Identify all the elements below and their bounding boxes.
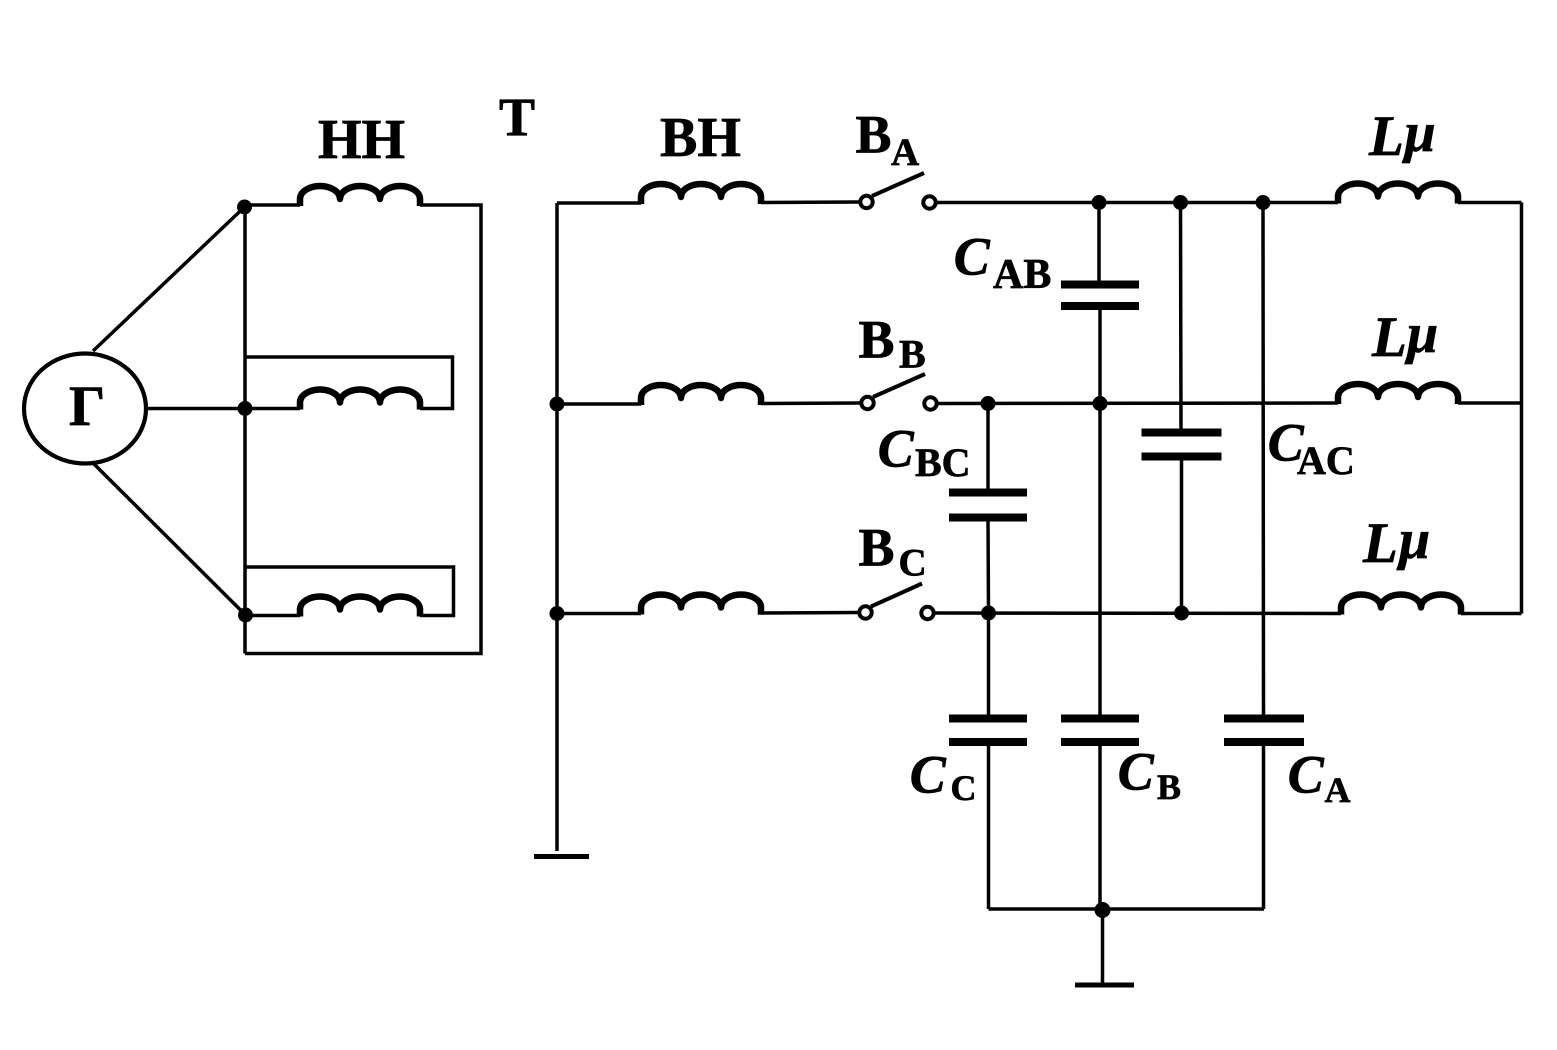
wire CAC to row C [1180,458,1184,613]
wire row A to switch BA [761,200,860,204]
wire LV vertical bus [243,206,247,654]
wire CC lower stub [987,744,991,909]
wire row B to switch BB [761,401,861,405]
label BB [859,310,926,377]
label CAB [954,227,1052,299]
wire node A2 to winding 2 [245,407,300,411]
wire CAB upper stub [1097,203,1101,283]
svg-text:μ: μ [1402,102,1436,164]
wire CAB to row B [1098,308,1102,404]
svg-text:μ: μ [1396,509,1430,571]
svg-text:L: L [1368,105,1404,168]
svg-text:C: C [878,419,915,479]
wire CC column [987,613,991,716]
wire CBC upper stub [986,404,990,491]
label CC [910,745,977,809]
label BC [859,518,927,585]
node row C - CAC [1174,606,1189,621]
label CAC [1268,413,1355,484]
switch BB [861,374,936,410]
inductor Lmu phase C [1341,595,1461,615]
label Lmu B [1371,303,1438,369]
wire Lmu B to right bus [1458,401,1522,405]
label CB [1118,742,1181,808]
svg-text:HH: HH [318,109,405,171]
wire Lmu C to right bus [1461,612,1522,616]
svg-text:C: C [1288,745,1325,805]
label CBC [878,419,971,486]
inductor BH phase C [641,595,761,615]
node A2 [238,401,253,416]
wire CB column [1098,404,1102,717]
node row B - CBC [981,396,996,411]
wire Lmu A to right bus [1458,201,1522,205]
svg-text:BC: BC [915,440,971,485]
wire right bus [1520,203,1524,614]
wire row C left [557,612,641,616]
capacitor CAC [1142,433,1222,457]
svg-text:AC: AC [1297,438,1355,483]
svg-text:Г: Г [69,375,105,438]
wire HV left bus [555,203,559,851]
svg-text:B: B [859,310,895,370]
node row B - CAB [1093,396,1108,411]
wire generator to node A3 [94,464,246,615]
inductor BH phase B [641,385,761,405]
wire winding 1 to HV loop [245,205,481,654]
wire CA column [1261,203,1265,717]
label BA [856,105,920,175]
inductor BH phase A [641,184,761,204]
switch BA [860,173,935,209]
svg-text:A: A [891,131,919,174]
svg-text:B: B [1157,767,1181,807]
capacitor CB [1061,719,1139,743]
capacitor CAB [1061,285,1139,307]
wire CBC to row C [986,519,990,613]
node bus row C [550,606,565,621]
node A3 [238,608,253,623]
svg-text:C: C [1118,742,1155,802]
node A1 [237,200,252,215]
svg-text:B: B [899,332,926,377]
svg-text:A: A [1325,770,1351,810]
wire ground stem [1101,910,1105,984]
svg-text:AB: AB [993,252,1051,298]
wire row C right [934,611,1341,615]
wire CB lower stub [1098,744,1102,909]
wire CA lower stub [1262,744,1266,909]
inductor HH winding 2 [300,390,420,410]
svg-text:B: B [856,105,892,165]
node bus row B [550,397,565,412]
node bottom bus [1095,902,1111,918]
svg-text:C: C [951,768,977,808]
capacitor CBC [949,493,1027,518]
svg-text:C: C [954,227,991,287]
wire winding 2 return [245,357,453,409]
node row C - CBC [981,606,996,621]
node row A - CAC [1173,195,1188,210]
inductor Lmu phase B [1338,384,1458,404]
inductor HH winding 1 [300,186,420,206]
wire row A left [557,201,641,205]
wire winding 3 return [245,567,454,616]
inductor Lmu phase A [1338,184,1458,204]
wire row B left [557,402,641,406]
label Lmu C [1362,509,1430,575]
label CA [1288,745,1351,811]
svg-text:T: T [499,87,535,147]
svg-text:μ: μ [1404,303,1438,365]
label Lmu A [1368,102,1436,168]
wire generator to node A2 [146,407,245,411]
inductor HH winding 3 [300,597,420,617]
svg-text:B: B [859,518,895,578]
svg-text:L: L [1371,306,1407,369]
capacitor CA [1224,719,1304,743]
svg-text:BH: BH [660,107,741,169]
svg-text:L: L [1362,512,1398,575]
wire node A1 to winding 1 [245,203,300,207]
ground bottom [1075,983,1134,988]
generator G [24,354,146,464]
capacitor CC [949,719,1027,743]
wire bottom bus [989,907,1265,911]
svg-text:C: C [910,745,947,805]
switch BC [859,584,933,620]
wire row C to switch BC [758,611,859,615]
wire generator to node A1 [93,207,245,351]
wire node A3 to winding 3 [246,614,300,618]
node row A - CAB [1092,195,1107,210]
wire CAC upper stub [1179,203,1183,431]
node row A - CA [1256,195,1271,210]
wire row B right [937,401,1338,405]
wire row A right [936,201,1338,205]
svg-text:C: C [899,542,927,585]
ground HV bus [534,854,589,859]
